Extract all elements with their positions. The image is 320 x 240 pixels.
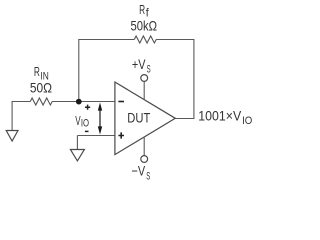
resistor Rf zigzag (134, 36, 156, 43)
svg-text:f: f (146, 6, 150, 20)
wire: feedback right vertical (193, 39, 195, 119)
wire: DUT bottom to -VS (143, 137, 145, 156)
label VIO plus polarity (85, 105, 90, 110)
op-amp DUT triangle (115, 82, 175, 155)
svg-text:50Ω: 50Ω (30, 80, 52, 95)
svg-text:+V: +V (132, 57, 146, 72)
svg-text:S: S (146, 170, 150, 182)
ground GND1 (6, 131, 18, 142)
ground GND2 (70, 150, 84, 161)
wire: feedback top right segment (156, 39, 194, 41)
svg-text:IO: IO (242, 115, 252, 127)
wire: feedback top left segment (78, 39, 134, 41)
svg-text:−V: −V (132, 164, 146, 179)
label VIO minus polarity (85, 130, 89, 132)
svg-text:50kΩ: 50kΩ (131, 19, 158, 34)
-VS terminal circle (141, 156, 148, 163)
wire: +VS to DUT top (143, 82, 145, 100)
DUT non-inverting input plus sign (118, 132, 124, 138)
svg-text:R: R (139, 2, 145, 17)
junction dot node A (76, 99, 82, 105)
wire: output (175, 118, 194, 120)
+VS terminal circle (141, 75, 148, 82)
VIO measurement double arrow (99, 106, 101, 131)
wire: input horizontal left (12, 101, 31, 103)
wire: feedback left vertical (78, 40, 80, 102)
svg-text:S: S (147, 64, 151, 76)
svg-text:DUT: DUT (127, 110, 150, 126)
svg-text:R: R (34, 64, 40, 79)
wire: plus input down to ground (76, 136, 78, 150)
resistor RIN zigzag (30, 98, 52, 105)
wire: input horizontal right to DUT minus input (52, 101, 115, 103)
svg-text:IO: IO (81, 118, 90, 130)
wire: input left vertical to ground (11, 102, 13, 131)
wire: DUT plus input horizontal (77, 135, 115, 137)
svg-text:1001×V: 1001×V (198, 109, 242, 124)
DUT inverting input minus sign (118, 101, 124, 103)
